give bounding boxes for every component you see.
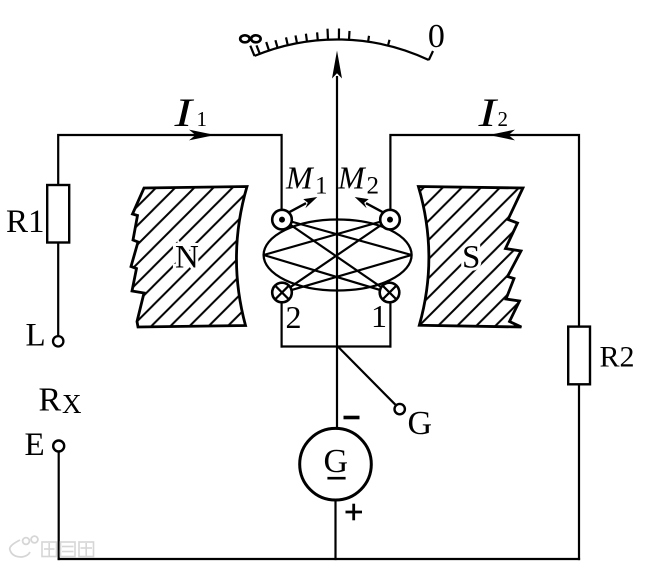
coil wire TL to BR: [282, 219, 390, 293]
svg-text:1: 1: [315, 173, 328, 200]
scale ticks: [250, 29, 433, 61]
svg-text:2: 2: [367, 173, 380, 200]
arrow I1: [189, 130, 215, 141]
switch wire to terminal G: [338, 347, 396, 405]
wire top-left with corner: [58, 135, 281, 210]
magnet pole S: [418, 187, 523, 328]
svg-text:S: S: [462, 240, 480, 276]
wire bottom: [58, 558, 581, 560]
svg-text:X: X: [62, 389, 82, 419]
coil wire BR to left tip: [264, 255, 390, 293]
needle: [336, 76, 338, 429]
wire top-right with corner: [390, 135, 579, 328]
svg-text:G: G: [324, 443, 349, 480]
arrow M2: [366, 203, 383, 212]
coil wire BL to right tip: [282, 255, 412, 293]
svg-text:I: I: [173, 91, 194, 135]
svg-text:1: 1: [371, 298, 387, 334]
svg-text:2: 2: [498, 107, 509, 131]
svg-text:I: I: [477, 91, 498, 135]
svg-text:0: 0: [428, 18, 445, 55]
svg-text:M: M: [337, 159, 367, 195]
svg-text:R2: R2: [600, 341, 635, 374]
svg-text:R1: R1: [6, 204, 45, 240]
wire below G: [334, 500, 336, 560]
scale arc: [255, 39, 429, 60]
coil wire TR to left tip: [264, 219, 390, 255]
coil end M1 dot: [272, 210, 292, 230]
svg-text:G: G: [408, 405, 433, 442]
coil end 1 cross: [380, 283, 400, 303]
coil wire TL to right tip: [282, 219, 412, 255]
svg-text:N: N: [175, 240, 199, 276]
box bottom wire: [281, 345, 392, 347]
magnet pole N: [131, 187, 247, 328]
minus sign: [344, 416, 360, 420]
resistor R1: [47, 185, 69, 243]
arrow I2: [489, 130, 515, 141]
svg-text:R: R: [39, 381, 62, 418]
coil wire TR to BL: [282, 219, 390, 293]
galvanometer G: [300, 428, 372, 500]
wire E to bottom: [58, 452, 60, 560]
coil end 2 cross: [272, 283, 292, 303]
plus sign: [346, 511, 363, 514]
scale label infinity: [240, 35, 249, 42]
resistor R2: [568, 327, 590, 385]
wire BL to box: [281, 303, 283, 347]
svg-text:2: 2: [286, 299, 302, 335]
arrow M1: [289, 203, 306, 212]
svg-text:M: M: [285, 159, 315, 195]
terminal L: [53, 336, 63, 346]
svg-text:L: L: [26, 318, 46, 354]
wire BR to box: [389, 303, 391, 347]
svg-text:1: 1: [197, 107, 208, 131]
wire right lower: [578, 384, 580, 560]
svg-text:E: E: [25, 427, 45, 463]
coil end M2 dot: [380, 210, 400, 230]
watermark: [10, 536, 94, 557]
wire R1 to L: [57, 243, 59, 337]
coil ellipse: [264, 220, 412, 291]
terminal G: [395, 404, 405, 414]
terminal E: [53, 441, 64, 452]
